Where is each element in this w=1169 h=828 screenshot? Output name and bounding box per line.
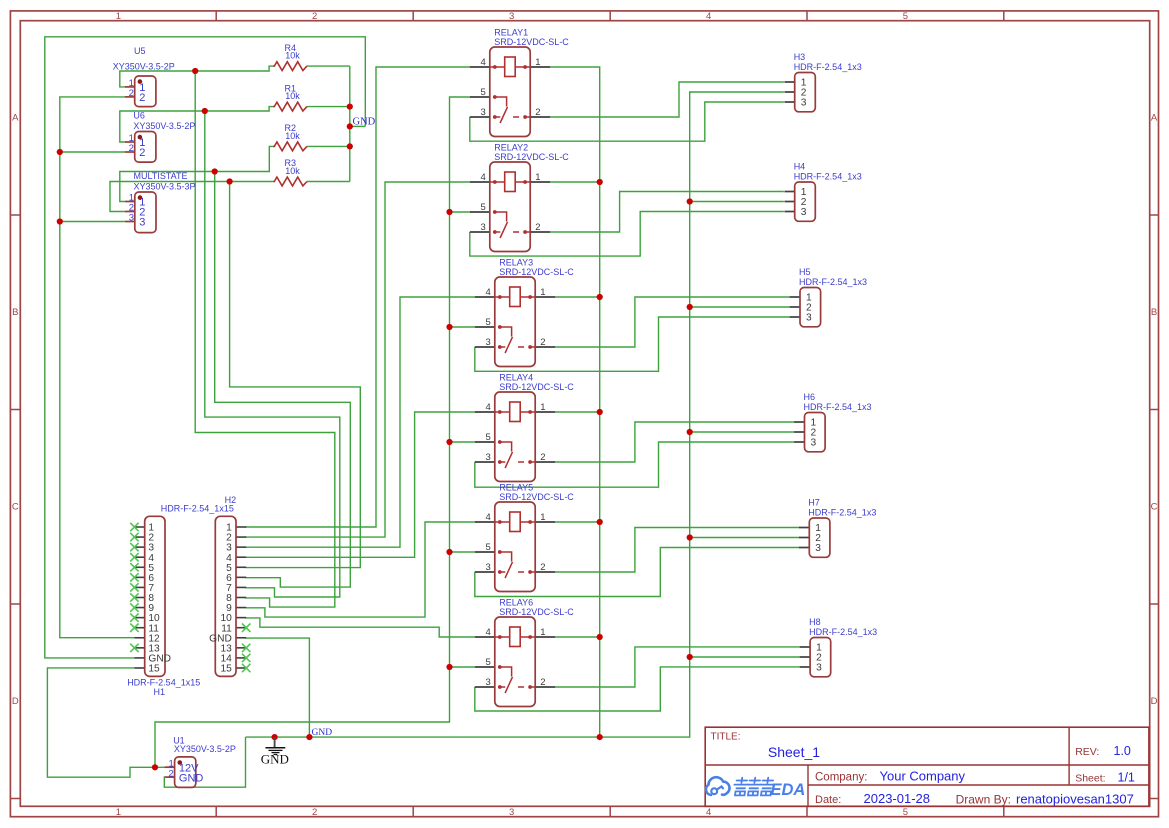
relay RELAY1 SRD-12VDC-SL-C	[470, 28, 570, 137]
svg-text:HDR-F-2.54_1x3: HDR-F-2.54_1x3	[794, 62, 862, 72]
junction row71 lane junction	[192, 68, 198, 74]
junction RELAY6.1 junction	[597, 634, 603, 640]
svg-text:C: C	[1151, 502, 1158, 513]
svg-text:2: 2	[540, 452, 545, 463]
junction H8.2 junction	[687, 654, 693, 660]
svg-text:REV:: REV:	[1075, 746, 1099, 758]
connector U1 XY350V-3.5-2P	[165, 736, 236, 788]
wire RELAY4.5 tap	[450, 441, 475, 443]
junction pin1 bus GND junction	[597, 734, 603, 740]
svg-text:H3: H3	[794, 52, 806, 62]
wire H5.2 tap	[690, 306, 790, 308]
wire U5.2/U6.2/MULT.3 bus to H1.12	[60, 97, 135, 638]
svg-text:5: 5	[903, 11, 908, 22]
junction RELAY3.1 junction	[597, 294, 603, 300]
svg-text:2: 2	[535, 222, 540, 233]
wire H7.2 tap	[690, 537, 800, 539]
svg-text:RELAY6: RELAY6	[499, 598, 533, 608]
wire RELAY5.1 tap	[555, 521, 600, 523]
connector H3 HDR-F-2.54_1x3	[784, 52, 861, 112]
junction H5.2 junction	[687, 304, 693, 310]
wire U6.1 to R1 row	[120, 107, 273, 142]
wire H2.1 to RELAY1.4	[245, 67, 470, 527]
wire R4 right lead	[307, 65, 350, 67]
junction RELAY3.5 junction	[446, 324, 452, 330]
svg-text:4: 4	[706, 807, 711, 818]
svg-text:H7: H7	[808, 498, 820, 508]
resistor R1	[273, 83, 307, 111]
svg-text:2: 2	[139, 147, 145, 159]
svg-text:Your Company: Your Company	[880, 768, 966, 783]
wire U1.2 to GND rail	[164, 737, 245, 787]
wire RELAY2.1 tap	[550, 181, 600, 183]
wire H1.15 to U1.1	[47, 668, 164, 777]
svg-text:10k: 10k	[285, 51, 300, 61]
svg-text:HDR-F-2.54_1x3: HDR-F-2.54_1x3	[808, 507, 876, 517]
svg-text:1: 1	[116, 807, 121, 818]
svg-text:SRD-12VDC-SL-C: SRD-12VDC-SL-C	[494, 37, 569, 47]
resistor R3	[273, 158, 307, 186]
wire R1 right lead	[307, 106, 350, 108]
svg-text:RELAY5: RELAY5	[499, 483, 533, 493]
junction H6.2 junction	[687, 429, 693, 435]
svg-text:3: 3	[801, 97, 807, 108]
svg-text:1: 1	[116, 11, 121, 22]
wire RELAY4.1 tap	[555, 411, 600, 413]
svg-text:B: B	[12, 307, 18, 318]
svg-text:Company:: Company:	[815, 771, 867, 783]
ground symbol	[261, 737, 289, 767]
svg-text:XY350V-3.5-2P: XY350V-3.5-2P	[113, 62, 175, 72]
wire MULTISTATE.2 to R3 row	[110, 182, 273, 212]
svg-text:2: 2	[540, 337, 545, 348]
svg-text:4: 4	[486, 512, 491, 523]
wire GND top rail and left rail	[45, 37, 366, 658]
wire U6.2 stub row	[60, 151, 125, 153]
svg-text:1.0: 1.0	[1114, 744, 1131, 758]
wire RELAY2.5 tap	[450, 211, 470, 213]
svg-text:3: 3	[481, 222, 486, 233]
connector H4 HDR-F-2.54_1x3	[784, 162, 861, 222]
svg-text:3: 3	[509, 11, 514, 22]
svg-text:XY350V-3.5-2P: XY350V-3.5-2P	[174, 744, 236, 754]
wire RELAY3.5 tap	[450, 326, 475, 328]
svg-text:H4: H4	[794, 162, 806, 172]
svg-text:2: 2	[535, 107, 540, 118]
svg-text:4: 4	[706, 11, 711, 22]
junction MULTISTATE.3 junction	[57, 218, 63, 224]
svg-text:XY350V-3.5-3P: XY350V-3.5-3P	[134, 181, 196, 191]
svg-text:1: 1	[540, 287, 545, 298]
wire RELAY5.2 to H7.1	[555, 528, 800, 573]
junction H2.GND rail junction	[306, 734, 312, 740]
wire H2.6 lane to row171	[215, 172, 351, 588]
junction RELAY5.5 junction	[446, 549, 452, 555]
connector U6 XY350V-3.5-2P	[125, 111, 196, 163]
wire H2.3 to RELAY3.4	[245, 297, 475, 547]
svg-text:3: 3	[486, 452, 491, 463]
svg-text:RELAY4: RELAY4	[499, 373, 533, 383]
svg-text:3: 3	[129, 213, 134, 224]
junction row181 lane junction	[227, 178, 233, 184]
svg-text:EDA: EDA	[771, 781, 806, 799]
junction row111 lane junction	[202, 108, 208, 114]
wire relay pin1 bus	[550, 67, 600, 737]
svg-text:B: B	[1151, 307, 1157, 318]
svg-text:SRD-12VDC-SL-C: SRD-12VDC-SL-C	[499, 607, 574, 617]
svg-text:HDR-F-2.54_1x3: HDR-F-2.54_1x3	[799, 277, 867, 287]
svg-text:HDR-F-2.54_1x3: HDR-F-2.54_1x3	[794, 171, 862, 181]
svg-text:HDR-F-2.54_1x3: HDR-F-2.54_1x3	[809, 627, 877, 637]
svg-text:1: 1	[540, 402, 545, 413]
wire H2.10 to RELAY6.4	[245, 618, 475, 637]
svg-text:15: 15	[220, 664, 232, 675]
svg-text:10k: 10k	[285, 91, 300, 101]
svg-text:1: 1	[540, 627, 545, 638]
wire RELAY6.5 tap	[450, 666, 475, 668]
junction U1.1 junction	[152, 764, 158, 770]
no-connect X marks H2	[242, 624, 250, 673]
svg-text:H1: H1	[154, 687, 166, 697]
wire R2 right lead	[307, 145, 350, 147]
svg-text:U5: U5	[134, 46, 146, 56]
wire R3 right lead	[307, 181, 350, 183]
wire H2.8 lane to row71	[195, 71, 335, 607]
svg-text:RELAY2: RELAY2	[494, 143, 528, 153]
junction row171 lane junction	[212, 168, 218, 174]
title block	[705, 727, 1149, 806]
svg-text:5: 5	[486, 317, 491, 328]
svg-text:3: 3	[811, 437, 817, 448]
svg-text:H8: H8	[809, 617, 821, 627]
svg-text:Drawn By:: Drawn By:	[956, 793, 1011, 807]
JLCEDA logo	[706, 777, 805, 799]
wire RELAY1.3 to H3.3	[470, 102, 784, 141]
wire RELAY2.3 to H4.3	[470, 212, 784, 257]
wire RELAY3.1 tap	[555, 296, 600, 298]
svg-text:SRD-12VDC-SL-C: SRD-12VDC-SL-C	[499, 267, 574, 277]
wire RELAY4.3 to H6.3	[475, 442, 795, 487]
relay RELAY2 SRD-12VDC-SL-C	[470, 143, 570, 252]
svg-text:3: 3	[139, 217, 145, 229]
svg-text:10k: 10k	[285, 166, 300, 176]
wire MULTISTATE.1 to R2 row	[120, 146, 273, 201]
junction U6.2 junction	[57, 149, 63, 155]
svg-text:Sheet:: Sheet:	[1075, 773, 1105, 785]
wire H8.2 tap	[690, 656, 801, 658]
wire RELAY3.2 to H5.1	[555, 297, 790, 347]
relay RELAY6 SRD-12VDC-SL-C	[475, 598, 575, 707]
wire RELAY1.2 to H3.1	[550, 82, 784, 117]
svg-text:5: 5	[481, 202, 486, 213]
no-connect X marks H1	[130, 523, 138, 652]
svg-text:2: 2	[129, 88, 134, 99]
junction R1 output junction	[347, 104, 353, 110]
wire H2.GND down to GND rail	[245, 638, 309, 737]
wire RELAY4.2 to H6.1	[555, 422, 794, 462]
svg-text:GND: GND	[312, 728, 333, 738]
svg-text:5: 5	[486, 657, 491, 668]
wire H4.2 tap	[690, 201, 784, 203]
svg-text:4: 4	[481, 57, 486, 68]
wire RELAY5.5 tap	[450, 551, 475, 553]
wire H2.7 lane to row111	[205, 111, 340, 597]
relay RELAY3 SRD-12VDC-SL-C	[475, 258, 575, 367]
svg-text:GND: GND	[261, 752, 289, 767]
svg-text:2: 2	[169, 768, 174, 779]
svg-text:3: 3	[486, 562, 491, 573]
junction RELAY4.5 junction	[446, 439, 452, 445]
resistor R2	[273, 123, 307, 151]
svg-text:3: 3	[815, 543, 821, 554]
svg-text:SRD-12VDC-SL-C: SRD-12VDC-SL-C	[494, 152, 569, 162]
svg-text:C: C	[12, 502, 19, 513]
connector H2 HDR-F-2.54_1x15	[161, 495, 246, 676]
svg-text:5: 5	[903, 807, 908, 818]
relay RELAY5 SRD-12VDC-SL-C	[475, 483, 575, 592]
svg-text:H6: H6	[804, 392, 816, 402]
connector H7 HDR-F-2.54_1x3	[799, 498, 876, 558]
svg-text:GND: GND	[353, 117, 376, 128]
junction RELAY6.5 junction	[446, 664, 452, 670]
wire H2.9 to RELAY5.4	[245, 522, 475, 617]
svg-text:SRD-12VDC-SL-C: SRD-12VDC-SL-C	[499, 382, 574, 392]
svg-text:XY350V-3.5-2P: XY350V-3.5-2P	[133, 121, 195, 131]
svg-text:2: 2	[312, 807, 317, 818]
connector U5 XY350V-3.5-2P	[113, 46, 175, 107]
svg-text:Date:: Date:	[815, 794, 841, 806]
svg-text:D: D	[1151, 696, 1158, 707]
connector H8 HDR-F-2.54_1x3	[800, 617, 877, 677]
svg-text:2: 2	[312, 11, 317, 22]
svg-text:3: 3	[816, 662, 822, 673]
svg-text:HDR-F-2.54_1x15: HDR-F-2.54_1x15	[127, 677, 200, 687]
svg-text:U6: U6	[133, 111, 145, 121]
svg-text:GND: GND	[179, 772, 204, 784]
svg-text:1/1: 1/1	[1118, 771, 1135, 785]
wire H2.2 to RELAY2.4	[245, 182, 470, 537]
svg-text:RELAY1: RELAY1	[494, 28, 528, 38]
svg-text:MULTISTATE: MULTISTATE	[134, 171, 188, 181]
junction H7.2 junction	[687, 534, 693, 540]
svg-text:3: 3	[486, 337, 491, 348]
svg-text:SRD-12VDC-SL-C: SRD-12VDC-SL-C	[499, 492, 574, 502]
wire resistor output chain vertical	[349, 66, 351, 181]
svg-text:4: 4	[481, 172, 486, 183]
wire MULTISTATE.3 stub row	[60, 221, 125, 223]
svg-text:3: 3	[481, 107, 486, 118]
wire RELAY6.3 to H8.3	[475, 667, 800, 711]
relay RELAY4 SRD-12VDC-SL-C	[475, 373, 575, 482]
wire RELAY6.1 tap	[555, 636, 600, 638]
svg-text:2: 2	[139, 92, 145, 104]
wire RELAY5.3 to H7.3	[475, 548, 800, 597]
svg-text:A: A	[1151, 113, 1158, 124]
svg-text:A: A	[12, 113, 19, 124]
svg-text:4: 4	[486, 287, 491, 298]
junction RELAY2.1 junction	[597, 179, 603, 185]
resistor R4	[273, 43, 307, 71]
svg-text:2: 2	[540, 562, 545, 573]
svg-text:4: 4	[486, 402, 491, 413]
wire H2.5 lane to row181	[230, 182, 361, 568]
junction GND label junction	[347, 123, 353, 129]
svg-text:TITLE:: TITLE:	[711, 732, 741, 743]
junction ground symbol junction	[272, 734, 278, 740]
junction RELAY2.5 junction	[446, 209, 452, 215]
connector H6 HDR-F-2.54_1x3	[794, 392, 871, 452]
wire RELAY6.2 to H8.1	[555, 647, 800, 687]
svg-text:RELAY3: RELAY3	[499, 258, 533, 268]
svg-text:renatopiovesan1307: renatopiovesan1307	[1016, 792, 1134, 807]
wire RELAY2.2 to H4.1	[550, 192, 784, 233]
svg-text:H5: H5	[799, 267, 811, 277]
junction H4.2 junction	[687, 198, 693, 204]
wire U5.1 to R4 row	[120, 66, 273, 87]
connector H5 HDR-F-2.54_1x3	[790, 267, 867, 327]
svg-text:HDR-F-2.54_1x15: HDR-F-2.54_1x15	[161, 503, 234, 513]
svg-text:2: 2	[129, 143, 134, 154]
svg-text:1: 1	[535, 57, 540, 68]
svg-text:2: 2	[540, 677, 545, 688]
svg-text:5: 5	[486, 432, 491, 443]
junction RELAY4.1 junction	[597, 409, 603, 415]
svg-text:3: 3	[801, 207, 807, 218]
svg-text:3: 3	[509, 807, 514, 818]
svg-text:1: 1	[540, 512, 545, 523]
svg-text:1: 1	[535, 172, 540, 183]
svg-text:5: 5	[481, 87, 486, 98]
wire GND bottom rail and header pin2 bus	[246, 92, 784, 737]
svg-text:3: 3	[806, 312, 812, 323]
wire RELAY3.3 to H5.3	[475, 317, 790, 371]
svg-text:D: D	[12, 696, 19, 707]
svg-text:HDR-F-2.54_1x3: HDR-F-2.54_1x3	[804, 402, 872, 412]
svg-text:10k: 10k	[285, 131, 300, 141]
wire relay pin5 bus to U1.1	[155, 97, 470, 767]
svg-text:5: 5	[486, 542, 491, 553]
junction RELAY5.1 junction	[597, 519, 603, 525]
svg-text:Sheet_1: Sheet_1	[768, 744, 820, 760]
connector H1 HDR-F-2.54_1x15	[127, 516, 200, 697]
svg-text:4: 4	[486, 627, 491, 638]
svg-text:15: 15	[148, 664, 160, 675]
wire H2.4 to RELAY4.4	[245, 412, 475, 557]
connector MULTISTATE XY350V-3.5-3P	[125, 171, 196, 233]
junction R2 output junction	[347, 143, 353, 149]
svg-text:2023-01-28: 2023-01-28	[864, 791, 931, 806]
svg-text:3: 3	[486, 677, 491, 688]
wire H6.2 tap	[690, 431, 795, 433]
